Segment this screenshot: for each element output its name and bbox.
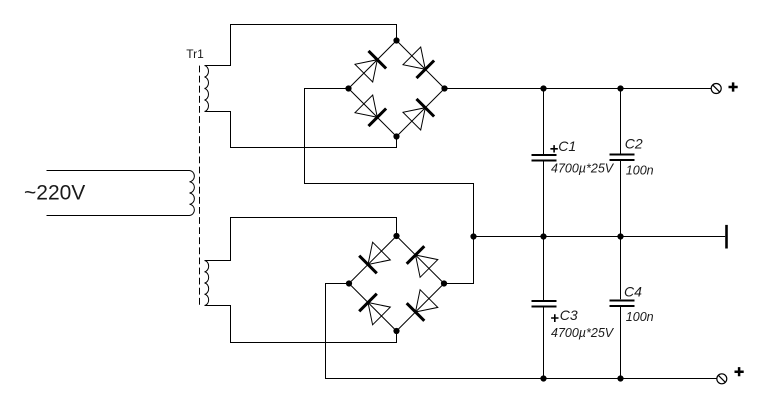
svg-text:4700µ*25V: 4700µ*25V [551,162,615,176]
svg-text:C2: C2 [625,136,643,152]
svg-text:~220V: ~220V [24,182,85,205]
svg-text:C4: C4 [624,283,642,299]
svg-text:C1: C1 [558,138,576,154]
svg-text:4700µ*25V: 4700µ*25V [551,326,615,340]
svg-text:100n: 100n [626,310,654,324]
svg-text:C3: C3 [560,307,578,323]
svg-text:Tr1: Tr1 [186,47,204,61]
svg-text:100n: 100n [626,163,654,177]
